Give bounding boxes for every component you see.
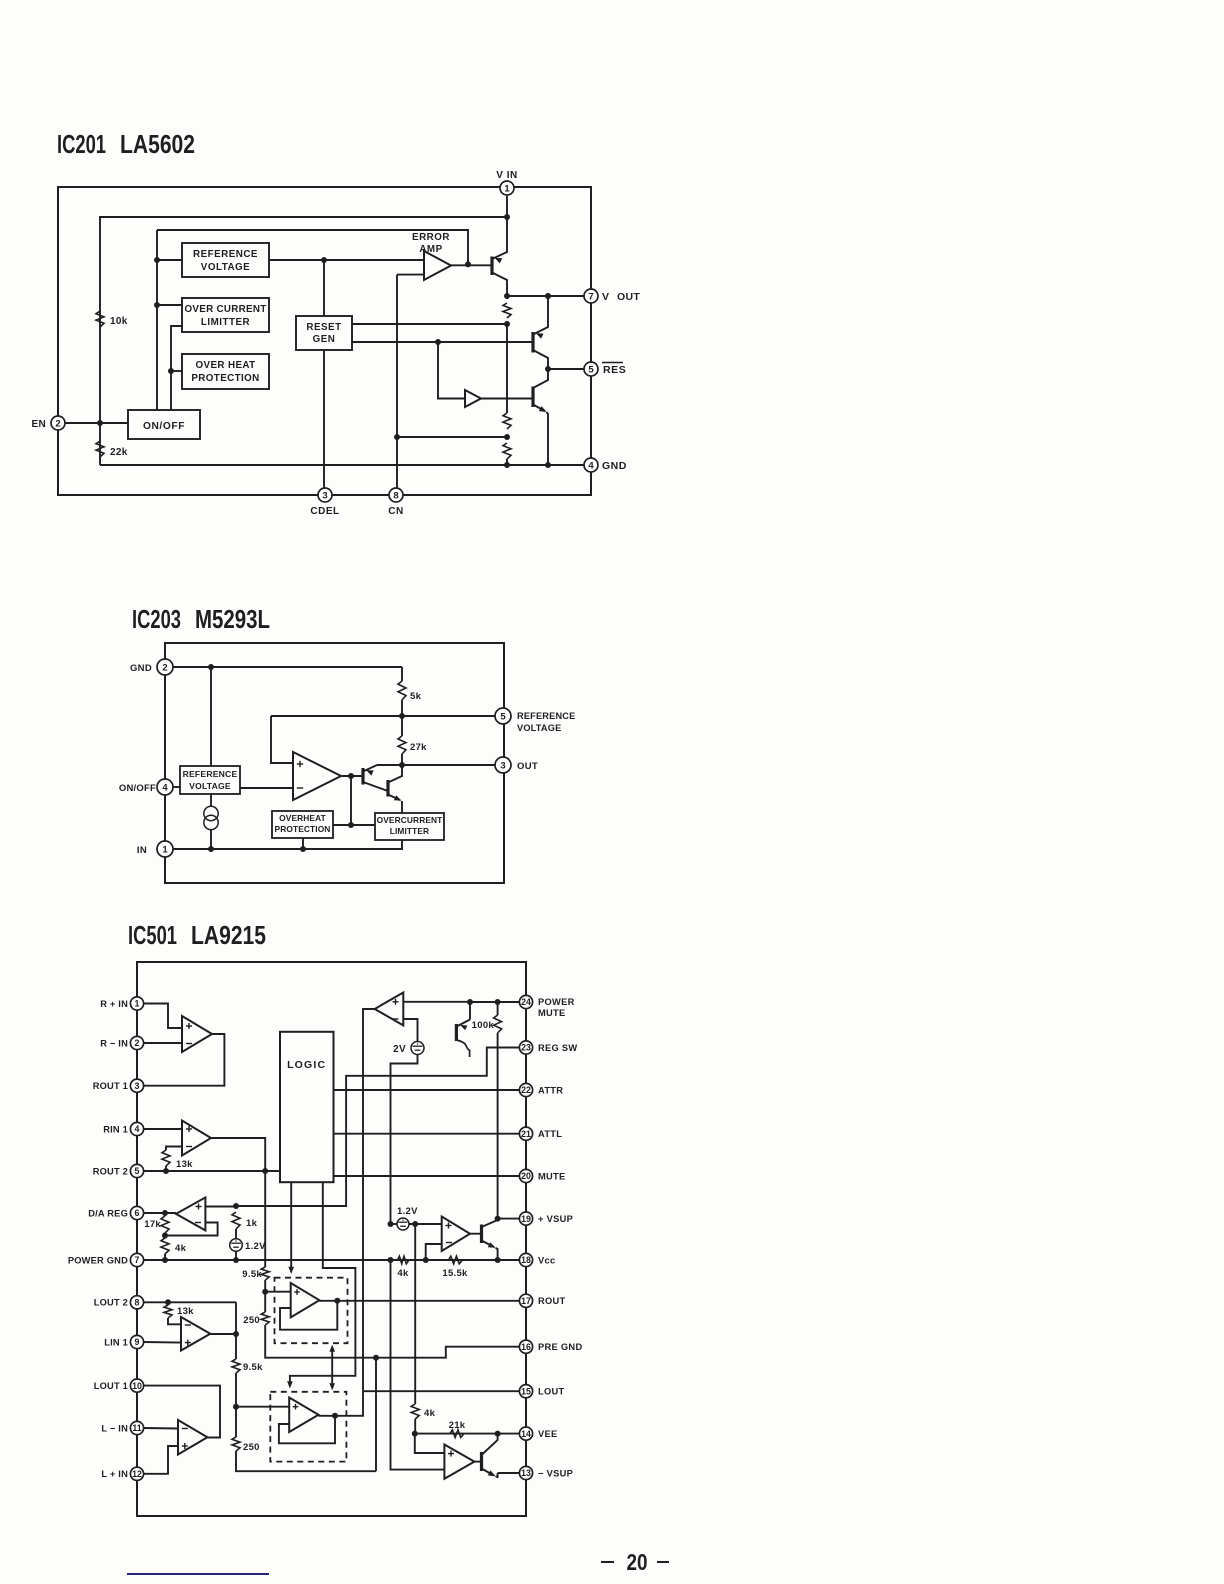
svg-text:IN: IN <box>137 845 147 856</box>
svg-text:22: 22 <box>521 1085 531 1095</box>
svg-text:4: 4 <box>162 782 168 793</box>
svg-text:− VSUP: − VSUP <box>538 1468 573 1478</box>
svg-text:250: 250 <box>243 1315 260 1326</box>
svg-text:13k: 13k <box>176 1159 193 1170</box>
svg-text:14: 14 <box>521 1429 531 1439</box>
svg-text:M5293L: M5293L <box>195 604 270 634</box>
svg-text:3: 3 <box>500 760 505 771</box>
svg-text:ATTL: ATTL <box>538 1129 562 1139</box>
svg-text:4k: 4k <box>424 1408 436 1419</box>
svg-text:PROTECTION: PROTECTION <box>191 373 259 384</box>
svg-text:VOLTAGE: VOLTAGE <box>201 262 250 273</box>
svg-text:VEE: VEE <box>538 1429 558 1439</box>
svg-text:OVER CURRENT: OVER CURRENT <box>185 304 267 315</box>
svg-text:1: 1 <box>504 183 510 194</box>
svg-text:2: 2 <box>55 418 60 429</box>
svg-text:1.2V: 1.2V <box>245 1241 266 1252</box>
svg-text:ATTR: ATTR <box>538 1085 563 1095</box>
svg-text:27k: 27k <box>410 742 427 753</box>
svg-text:R + IN: R + IN <box>100 999 128 1009</box>
svg-text:17: 17 <box>521 1296 531 1306</box>
svg-text:V: V <box>602 291 609 303</box>
svg-text:IC201: IC201 <box>57 129 106 159</box>
svg-text:POWER GND: POWER GND <box>68 1255 128 1265</box>
svg-text:MUTE: MUTE <box>538 1008 566 1018</box>
svg-text:LIMITTER: LIMITTER <box>201 317 250 328</box>
svg-text:RIN 1: RIN 1 <box>103 1124 128 1134</box>
svg-text:CDEL: CDEL <box>310 506 339 517</box>
svg-text:3: 3 <box>135 1081 140 1091</box>
svg-text:21: 21 <box>521 1129 531 1139</box>
svg-text:20: 20 <box>627 1549 648 1575</box>
svg-text:19: 19 <box>521 1214 531 1224</box>
svg-text:RES: RES <box>603 364 626 376</box>
svg-text:LOUT: LOUT <box>538 1387 565 1397</box>
svg-text:REFERENCE: REFERENCE <box>517 711 575 721</box>
svg-text:5: 5 <box>135 1166 140 1176</box>
svg-text:7: 7 <box>135 1255 140 1265</box>
svg-text:LOUT 2: LOUT 2 <box>94 1298 128 1308</box>
svg-text:R − IN: R − IN <box>100 1038 128 1048</box>
svg-text:22k: 22k <box>110 447 128 458</box>
svg-text:8: 8 <box>393 490 398 501</box>
svg-text:23: 23 <box>521 1043 531 1053</box>
svg-text:4k: 4k <box>397 1268 409 1279</box>
svg-text:8: 8 <box>135 1297 140 1307</box>
svg-text:GND: GND <box>602 460 627 472</box>
svg-text:AMP: AMP <box>419 244 442 255</box>
svg-text:18: 18 <box>521 1255 531 1265</box>
svg-text:MUTE: MUTE <box>538 1171 566 1181</box>
svg-text:2V: 2V <box>393 1044 406 1055</box>
svg-text:V IN: V IN <box>496 170 517 181</box>
svg-text:10: 10 <box>132 1381 142 1391</box>
svg-text:5k: 5k <box>410 691 422 702</box>
svg-text:REFERENCE: REFERENCE <box>183 769 238 779</box>
svg-text:ON/OFF: ON/OFF <box>119 783 156 794</box>
svg-text:4: 4 <box>588 460 594 471</box>
svg-text:4: 4 <box>135 1124 140 1134</box>
svg-text:13k: 13k <box>177 1306 194 1317</box>
svg-text:20: 20 <box>521 1171 531 1181</box>
svg-text:250: 250 <box>243 1442 260 1453</box>
svg-text:LA9215: LA9215 <box>191 920 266 950</box>
svg-text:13: 13 <box>521 1468 531 1478</box>
svg-text:7: 7 <box>588 291 593 302</box>
svg-text:9.5k: 9.5k <box>242 1269 262 1280</box>
svg-text:GEN: GEN <box>313 334 336 345</box>
svg-text:+ VSUP: + VSUP <box>538 1214 573 1224</box>
svg-text:9: 9 <box>135 1337 140 1347</box>
svg-text:2: 2 <box>135 1038 140 1048</box>
svg-text:VOLTAGE: VOLTAGE <box>189 781 231 791</box>
svg-text:RESET: RESET <box>306 322 341 333</box>
svg-text:ROUT 1: ROUT 1 <box>93 1081 128 1091</box>
svg-text:OVERHEAT: OVERHEAT <box>279 813 326 823</box>
svg-text:PRE GND: PRE GND <box>538 1342 582 1352</box>
svg-text:5: 5 <box>588 364 594 375</box>
svg-text:4k: 4k <box>175 1243 187 1254</box>
svg-text:3: 3 <box>322 490 327 501</box>
svg-text:100k: 100k <box>472 1020 495 1031</box>
svg-text:LOGIC: LOGIC <box>287 1059 326 1071</box>
svg-text:1.2V: 1.2V <box>397 1206 418 1217</box>
svg-text:12: 12 <box>132 1469 142 1479</box>
svg-text:LIN 1: LIN 1 <box>104 1337 128 1347</box>
svg-text:15.5k: 15.5k <box>442 1268 468 1279</box>
svg-text:L + IN: L + IN <box>101 1469 128 1479</box>
svg-text:ROUT 2: ROUT 2 <box>93 1166 128 1176</box>
svg-text:10k: 10k <box>110 316 128 327</box>
svg-text:D/A REG: D/A REG <box>88 1208 128 1218</box>
svg-text:6: 6 <box>135 1208 140 1218</box>
svg-text:ON/OFF: ON/OFF <box>143 421 185 432</box>
svg-text:5: 5 <box>500 711 506 722</box>
svg-text:9.5k: 9.5k <box>243 1362 263 1373</box>
svg-text:OVERCURRENT: OVERCURRENT <box>377 815 444 825</box>
svg-text:1: 1 <box>162 844 168 855</box>
svg-text:CN: CN <box>388 506 403 517</box>
svg-text:15: 15 <box>521 1386 531 1396</box>
svg-text:16: 16 <box>521 1342 531 1352</box>
svg-text:OVER HEAT: OVER HEAT <box>195 360 255 371</box>
svg-text:1k: 1k <box>246 1218 258 1229</box>
svg-text:ERROR: ERROR <box>412 232 450 243</box>
svg-text:17k: 17k <box>144 1219 161 1230</box>
svg-text:LIMITTER: LIMITTER <box>390 826 429 836</box>
svg-text:EN: EN <box>32 419 47 430</box>
svg-text:LA5602: LA5602 <box>120 129 195 159</box>
svg-text:OUT: OUT <box>517 761 538 772</box>
svg-text:REG SW: REG SW <box>538 1043 578 1053</box>
svg-text:11: 11 <box>132 1423 141 1433</box>
svg-text:L − IN: L − IN <box>101 1423 128 1433</box>
svg-text:POWER: POWER <box>538 997 575 1007</box>
svg-text:24: 24 <box>521 997 531 1007</box>
svg-text:21k: 21k <box>449 1420 466 1431</box>
svg-text:ROUT: ROUT <box>538 1296 566 1306</box>
svg-text:LOUT 1: LOUT 1 <box>94 1381 128 1391</box>
svg-text:1: 1 <box>135 999 140 1009</box>
svg-text:IC203: IC203 <box>132 604 181 634</box>
svg-text:VOLTAGE: VOLTAGE <box>517 723 561 733</box>
svg-text:GND: GND <box>130 663 152 674</box>
svg-text:2: 2 <box>162 662 167 673</box>
svg-text:IC501: IC501 <box>128 920 177 950</box>
svg-text:Vcc: Vcc <box>538 1255 555 1265</box>
svg-text:OUT: OUT <box>617 291 640 303</box>
svg-text:REFERENCE: REFERENCE <box>193 249 258 260</box>
svg-text:PROTECTION: PROTECTION <box>275 824 331 834</box>
